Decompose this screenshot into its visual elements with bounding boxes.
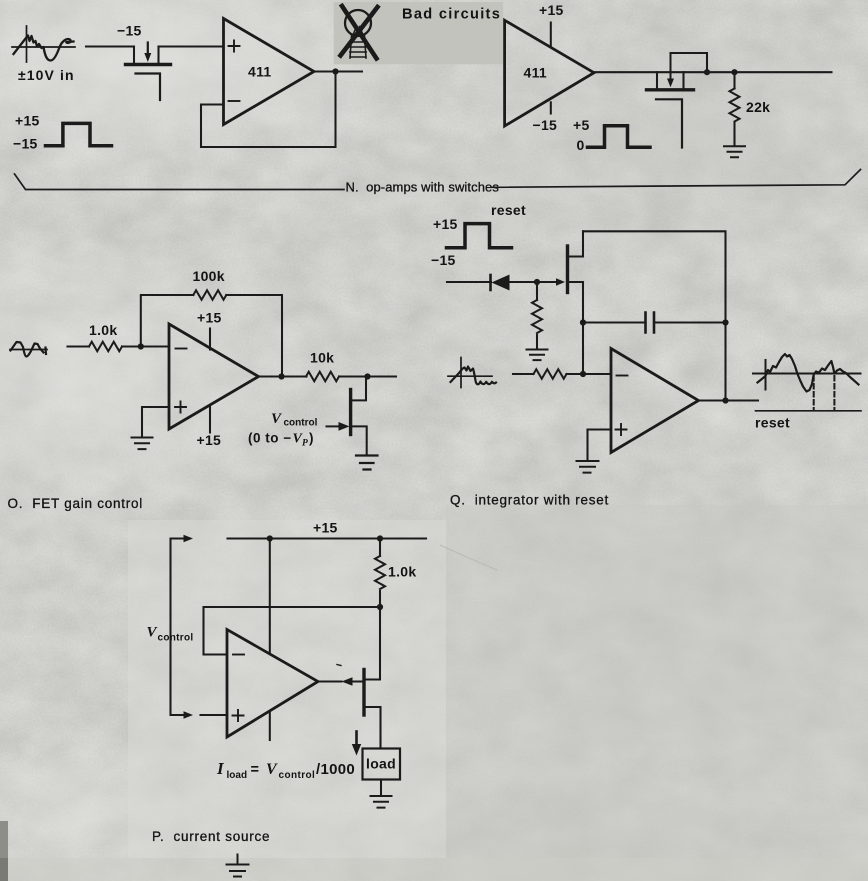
V control bracket vertical — [169, 539, 171, 716]
faint scratch mark — [440, 545, 497, 570]
supply lead top — [269, 539, 271, 654]
node 22k junction — [731, 69, 737, 75]
wire to + input — [201, 714, 228, 716]
wire 1.0k to op-amp — [122, 345, 169, 347]
svg-text:N. op-amps with switches: N. op-amps with switches — [346, 180, 500, 195]
svg-text:0: 0 — [577, 137, 585, 153]
node output junction — [332, 68, 338, 74]
resistor R3 10k — [306, 372, 339, 382]
FET Q1 gate arrow from -15 — [147, 43, 149, 55]
node rail/1.0k — [377, 535, 383, 541]
svg-text:+5: +5 — [573, 117, 590, 133]
control square wave — [46, 123, 112, 145]
bulb icon X cross — [341, 6, 378, 59]
op-amp U5 + input label — [233, 710, 244, 721]
feedback wire to output — [226, 295, 282, 374]
svg-text:control: control — [279, 770, 316, 781]
node rail/op-amp supply — [267, 535, 273, 541]
svg-text:O. FET gain control: O. FET gain control — [8, 496, 144, 511]
node feedback junction — [377, 604, 383, 610]
op-amp U3 triangle — [169, 324, 259, 429]
svg-text:control: control — [284, 418, 318, 429]
output wire to FET Q2 — [594, 71, 832, 73]
svg-text:P. current source: P. current source — [152, 829, 270, 844]
node capacitor right — [722, 319, 728, 325]
wire load to ground — [380, 780, 382, 796]
svg-text:+15: +15 — [197, 310, 222, 326]
FET Q5 source lead — [364, 707, 381, 749]
FET Q4 drain lead — [568, 231, 584, 256]
svg-text:1.0k: 1.0k — [388, 564, 416, 580]
svg-text:+15: +15 — [197, 432, 222, 448]
FET Q2 left lead — [656, 72, 658, 88]
ground (op-amp +) — [132, 438, 153, 450]
capacitor C1 — [583, 321, 726, 323]
FET Q1 channel bar — [126, 63, 171, 66]
bracket top arrow — [171, 538, 185, 540]
op-amp U4 triangle — [611, 349, 699, 453]
output wire — [259, 375, 307, 377]
bulb icon circle — [345, 10, 371, 36]
wire input to 1.0k — [68, 345, 90, 347]
divider rule right — [492, 170, 861, 188]
ground (op-amp Q +) — [577, 461, 599, 473]
svg-text:+15: +15 — [539, 2, 564, 18]
diode D1 — [489, 275, 492, 290]
stray mark — [337, 665, 341, 666]
resistor R5 (integrator input) — [534, 369, 567, 379]
FET Q2 channel bar — [647, 88, 694, 91]
svg-text:Bad circuits: Bad circuits — [402, 6, 501, 22]
reset square wave — [447, 224, 512, 248]
resistor R1 1.0k — [89, 342, 122, 352]
ground (R4) — [527, 350, 548, 361]
FET Q3 drain lead — [351, 377, 366, 401]
FET Q3 source lead — [351, 426, 367, 454]
input squiggle (section Q) — [448, 358, 492, 388]
svg-text:load: load — [227, 770, 248, 781]
svg-text:22k: 22k — [746, 99, 770, 115]
svg-text:V: V — [266, 761, 278, 778]
node summing junction Q — [580, 371, 586, 377]
svg-text:−15: −15 — [533, 117, 558, 133]
svg-text:=: = — [251, 762, 259, 778]
op-amp U3 + input label — [175, 402, 186, 413]
wire resistor to op-amp — [567, 373, 612, 375]
node capacitor left — [580, 319, 586, 325]
wire input to FET Q1 — [86, 45, 134, 47]
+15 supply lead — [550, 23, 552, 46]
FET Q4 channel bar — [566, 246, 569, 293]
node output rail junction — [722, 397, 728, 403]
reset input wire — [447, 281, 491, 283]
FET Q4 source lead — [568, 282, 584, 323]
FET Q5 gate arrow (p-channel) — [342, 677, 353, 685]
input waveform axis (top-left) — [12, 26, 75, 62]
output waveform squiggle — [758, 354, 859, 392]
supply lead bottom — [269, 711, 271, 740]
svg-text:P: P — [302, 439, 308, 449]
+ input wire to ground — [142, 407, 169, 437]
svg-text:100k: 100k — [193, 268, 225, 284]
bulb icon base — [350, 36, 366, 58]
svg-text:±10V in: ±10V in — [18, 67, 75, 83]
node gate junction — [534, 279, 540, 285]
svg-text:+15: +15 — [313, 520, 338, 536]
svg-text:411: 411 — [248, 64, 272, 80]
divider rule left — [15, 174, 345, 190]
FET Q3 gate wire with arrow — [327, 425, 341, 427]
wire diode to node — [510, 281, 538, 283]
control square wave (+5/0) — [588, 126, 651, 148]
svg-text:/1000: /1000 — [316, 761, 355, 778]
svg-text:−15: −15 — [13, 136, 38, 152]
FET Q2 lower gate electrode — [656, 99, 682, 147]
node summing junction — [138, 343, 144, 349]
FET Q2 right lead — [682, 72, 684, 88]
svg-text:10k: 10k — [310, 350, 334, 366]
op-amp U4 - input label — [617, 375, 628, 377]
resistor R6 1.0k — [379, 539, 381, 608]
feedback wire up — [141, 295, 194, 347]
node output junction — [278, 373, 284, 379]
FET Q5 gate wire — [318, 681, 363, 683]
feedback wire output to - input — [201, 72, 336, 148]
svg-text:−15: −15 — [431, 252, 456, 268]
output waveform axis — [753, 360, 861, 390]
resistor R4 (gate pulldown) — [536, 282, 538, 348]
wire FET to op-amp + input — [159, 45, 224, 47]
output time baseline — [756, 410, 862, 412]
op-amp U5 - input label — [233, 654, 244, 656]
node FET drain junction — [364, 373, 370, 379]
FET Q1 drain lead — [133, 47, 135, 64]
bracket bottom arrow — [171, 714, 185, 716]
svg-text:1.0k: 1.0k — [89, 322, 117, 338]
I load arrow — [355, 732, 358, 746]
FET Q1 source lead — [157, 47, 159, 64]
wire 1.0k to FET drain — [364, 607, 380, 680]
input squiggle (section O) — [10, 349, 47, 351]
input waveform squiggle ±10V — [14, 36, 74, 61]
tonal patches — [128, 520, 446, 858]
dark strip bottom-left page edge — [0, 821, 8, 881]
svg-text:reset: reset — [491, 202, 526, 218]
svg-text:Q. integrator with reset: Q. integrator with reset — [450, 493, 609, 508]
svg-text:+15: +15 — [15, 113, 40, 129]
op-amp U1 + input label — [229, 41, 240, 52]
ground (load) — [371, 796, 392, 808]
output wire — [314, 70, 362, 72]
output wire — [699, 399, 759, 401]
svg-text:(0 to −: (0 to − — [248, 431, 292, 446]
-15 supply lead — [550, 102, 552, 113]
svg-text:load: load — [366, 756, 396, 772]
resistor 22k — [733, 72, 735, 145]
FET Q3 channel bar — [349, 390, 352, 435]
bulb filament — [354, 27, 363, 34]
FET Q4 gate wire with arrow — [537, 281, 556, 283]
svg-text:control: control — [158, 633, 194, 644]
svg-text:−15: −15 — [117, 23, 142, 39]
svg-text:): ) — [309, 431, 314, 446]
bad circuits gray box — [334, 2, 504, 64]
input wire to resistor — [513, 373, 534, 375]
FET Q2 gate arrow — [670, 53, 672, 80]
reset dashed line 2 — [833, 376, 835, 411]
op-amp U4 + input label — [616, 424, 627, 435]
op-amp U1 triangle — [224, 19, 315, 125]
node gate-output junction — [704, 69, 710, 75]
+15 supply lead (bottom) — [209, 406, 211, 433]
summing node vertical — [582, 323, 584, 375]
op-amp U2 triangle — [505, 20, 594, 126]
op-amp U3 - input label — [176, 348, 187, 350]
+15 supply lead (top) — [209, 329, 211, 350]
resistor R2 100k — [193, 290, 226, 300]
svg-text:reset: reset — [755, 415, 790, 431]
op-amp U1 - input label — [229, 100, 240, 102]
top rail wire to output — [583, 231, 726, 400]
FET Q5 channel bar — [362, 670, 365, 716]
stray ground symbol bottom — [237, 855, 239, 865]
reset dashed line 1 — [813, 376, 815, 411]
FET Q2 gate hook wire to output — [671, 53, 708, 72]
ground (22k) — [724, 146, 745, 157]
ground (FET source) — [356, 456, 378, 470]
feedback wire - input to 1.0k bottom — [204, 607, 381, 655]
wire 10k to node — [339, 375, 396, 377]
load box — [363, 749, 401, 780]
top rail +15 — [228, 537, 427, 539]
svg-text:411: 411 — [524, 65, 548, 81]
op-amp U5 triangle — [227, 630, 318, 738]
svg-text:+15: +15 — [433, 216, 458, 232]
FET Q1 lower gate electrode — [136, 74, 161, 101]
+ input wire to ground — [588, 430, 612, 461]
